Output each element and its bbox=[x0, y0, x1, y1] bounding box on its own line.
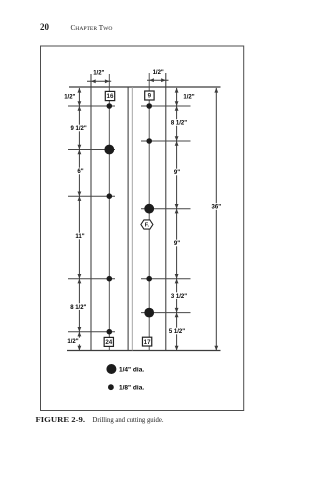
svg-text:5 1/2": 5 1/2" bbox=[169, 329, 185, 335]
svg-text:Drilling and cutting guide.: Drilling and cutting guide. bbox=[93, 415, 164, 424]
svg-text:1/2": 1/2" bbox=[183, 95, 194, 101]
svg-text:17: 17 bbox=[144, 339, 151, 346]
svg-text:9": 9" bbox=[174, 170, 180, 176]
svg-text:1/2": 1/2" bbox=[153, 70, 164, 76]
svg-text:20: 20 bbox=[40, 22, 50, 32]
svg-text:8 1/2": 8 1/2" bbox=[70, 305, 86, 311]
svg-text:3 1/2": 3 1/2" bbox=[171, 294, 187, 300]
svg-text:9: 9 bbox=[148, 93, 152, 100]
svg-text:8 1/2": 8 1/2" bbox=[171, 121, 187, 127]
svg-text:36": 36" bbox=[212, 205, 222, 211]
svg-text:CHAPTER TWO: CHAPTER TWO bbox=[71, 24, 113, 32]
svg-text:16: 16 bbox=[107, 93, 114, 100]
svg-text:F.: F. bbox=[145, 223, 150, 229]
svg-text:1/2": 1/2" bbox=[64, 95, 75, 101]
svg-text:1/8" dia.: 1/8" dia. bbox=[119, 385, 144, 392]
svg-text:1/2": 1/2" bbox=[67, 339, 78, 345]
svg-text:11": 11" bbox=[75, 234, 84, 240]
svg-text:1/4" dia.: 1/4" dia. bbox=[119, 366, 144, 373]
svg-text:1/2": 1/2" bbox=[93, 71, 104, 77]
svg-text:9 1/2": 9 1/2" bbox=[70, 126, 86, 132]
svg-text:24: 24 bbox=[105, 339, 112, 346]
svg-text:9": 9" bbox=[174, 241, 180, 247]
svg-text:6": 6" bbox=[77, 169, 83, 175]
svg-text:FIGURE 2-9.: FIGURE 2-9. bbox=[36, 415, 86, 424]
